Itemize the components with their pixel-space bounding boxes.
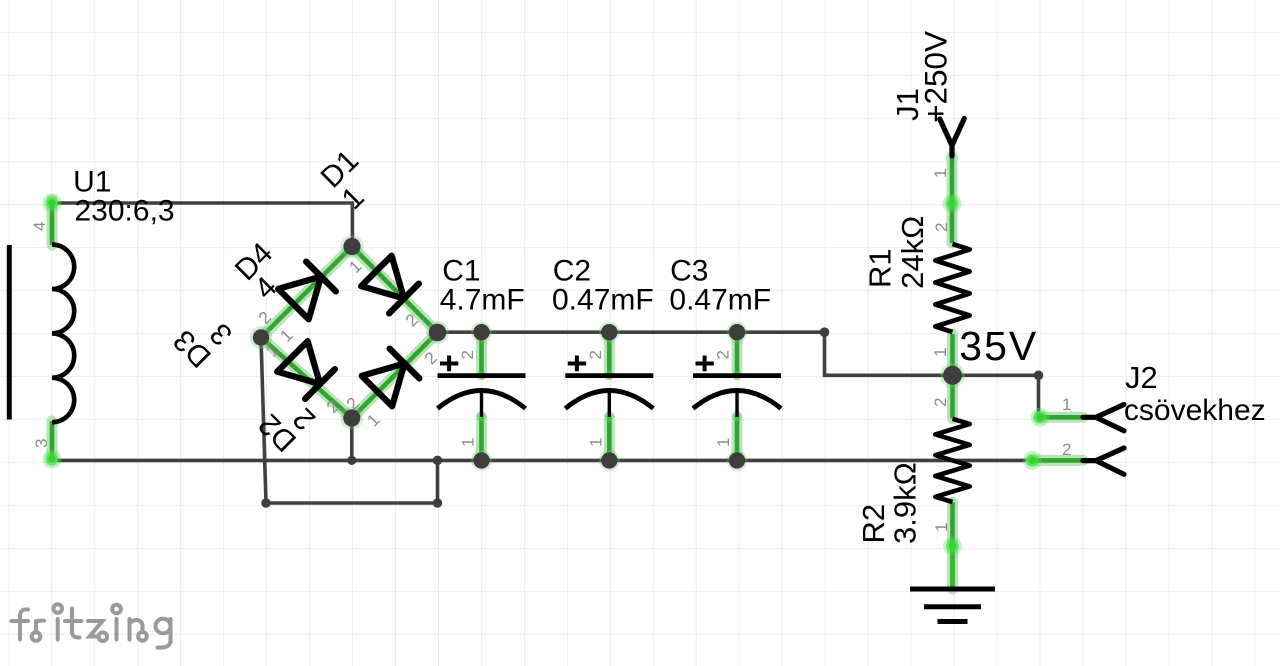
pin number 2 (at bottom node): [343, 394, 363, 414]
winding coil: [52, 245, 74, 423]
node bridge bottom (D2 D3 junction): [343, 409, 360, 426]
pin number 1 (R1): [931, 348, 950, 357]
svg-text:1: 1: [586, 438, 605, 447]
connector J2 pin1 symbol: [1083, 405, 1124, 431]
node C2 pin1 on bottom bus: [601, 452, 617, 468]
svg-text:R1: R1: [863, 248, 898, 288]
node 35V (R1 R2 junction): [943, 366, 962, 385]
pin number 2 (R1): [932, 223, 951, 232]
value label 1 (D1): [336, 181, 371, 216]
pin number 2 (D4 cathode at left node): [255, 308, 275, 328]
svg-text:3.9kΩ: 3.9kΩ: [888, 462, 923, 544]
label D2: [252, 407, 302, 457]
pin number 1 (C2): [586, 438, 605, 447]
value label 2 (D2): [287, 401, 322, 436]
label D3: [167, 323, 217, 373]
ground symbol: [910, 589, 995, 622]
resistor R2: [935, 419, 969, 502]
label J1: [890, 88, 925, 121]
svg-text:J2: J2: [1125, 360, 1158, 395]
wire bottom bus (U1 pin3 to J2 pin2): [53, 459, 1031, 463]
pin number 2 (D1 cathode at right node): [402, 310, 422, 330]
connector J2 pin2 symbol: [1083, 448, 1124, 474]
pin number 1 (J1): [931, 169, 950, 178]
svg-text:1: 1: [459, 438, 478, 447]
svg-text:csövekhez: csövekhez: [1124, 394, 1266, 427]
pin number 1 (C3): [714, 438, 733, 447]
pin number 2 (C2): [586, 350, 605, 359]
svg-text:35V: 35V: [959, 323, 1038, 369]
wire U1 pin3 leg: [50, 421, 55, 460]
pin number 1 (D3 anode at left node): [262, 341, 282, 361]
wire top bus (bridge right node to C1 C2 C3 and 35V node): [438, 332, 953, 375]
wire bridge diagonal D4 (left node to top node): [261, 247, 352, 338]
pin number 2 (D2 cathode at right node): [421, 348, 441, 368]
value label 3.9kΩ: [888, 462, 923, 544]
pin number 1 (R2): [932, 523, 951, 532]
fritzing watermark logo: [12, 604, 171, 647]
pin number 1 (D4 at left node): [276, 326, 296, 346]
wire R2 pin1 to ground: [950, 502, 955, 589]
svg-text:C2: C2: [553, 254, 591, 287]
svg-text:2: 2: [1062, 440, 1071, 459]
svg-text:0.47mF: 0.47mF: [669, 284, 771, 317]
green connection glow blobs: [43, 194, 1050, 556]
value label +250V: [917, 31, 953, 123]
label D1: [315, 144, 365, 194]
pin number 1 (D2 anode at bottom node): [363, 410, 383, 430]
svg-text:3: 3: [32, 439, 51, 448]
junction elbow corner right: [433, 498, 443, 508]
junction elbow on bottom bus: [433, 456, 443, 466]
svg-text:C1: C1: [442, 254, 480, 287]
node bridge right (D1 D2 junction): [429, 324, 447, 342]
diode D1: [361, 256, 419, 314]
svg-text:2: 2: [714, 350, 733, 359]
wire C2 pin1 leg: [607, 417, 612, 461]
wire C1 pin2 leg: [479, 332, 484, 374]
wire C3 pin1 leg: [735, 417, 740, 461]
wire bridge diagonal D1 (top node to right node): [352, 247, 438, 333]
junction J2 pin1 corner: [1034, 371, 1044, 381]
node bridge top (D1 D4 junction): [343, 238, 360, 255]
diode D4: [278, 261, 336, 319]
junction elbow corner left: [261, 498, 271, 508]
node bridge left (D3 D4 junction): [253, 329, 269, 345]
green glow underlays of nets: [52, 156, 1083, 589]
svg-text:1: 1: [714, 438, 733, 447]
svg-text:0.47mF: 0.47mF: [552, 284, 654, 317]
wire C2 pin2 leg: [607, 332, 612, 374]
svg-text:1: 1: [931, 169, 950, 178]
capacitor C1: [438, 356, 526, 418]
node C3 pin2 on top bus: [729, 324, 745, 340]
svg-text:2: 2: [931, 398, 950, 407]
svg-text:2: 2: [458, 350, 477, 359]
wire C1 pin1 leg: [479, 417, 484, 461]
label R1: [863, 248, 898, 288]
label R2: [856, 504, 891, 544]
wire bridge diagonal D2 (bottom node to right node): [352, 333, 438, 419]
svg-text:24kΩ: 24kΩ: [895, 216, 930, 289]
wire U1 pin4 leg: [50, 200, 55, 245]
wire J2 pin2 leg: [1031, 458, 1083, 463]
wire R1 pin1 leg to 35V node: [950, 334, 955, 375]
core bar: [7, 245, 12, 420]
pin number 1 (D1 anode at top node): [345, 257, 365, 277]
wire U1 pin4 to bridge top node: [53, 203, 352, 247]
wire bridge diagonal D3 (left node to bottom node): [261, 338, 352, 419]
wire bridge bottom node stub: [350, 418, 354, 460]
junction top bus corner: [820, 327, 830, 337]
svg-text:1: 1: [1062, 395, 1071, 414]
svg-text:4.7mF: 4.7mF: [440, 284, 525, 317]
resistor R1: [935, 244, 969, 332]
svg-text:1: 1: [931, 348, 950, 357]
wire 35V node to J2 pin1: [953, 375, 1039, 417]
diode D3: [277, 341, 335, 399]
pin number 2 (D3 cathode at bottom node): [323, 397, 343, 417]
svg-text:230:6,3: 230:6,3: [75, 194, 175, 227]
svg-text:2: 2: [932, 223, 951, 232]
wire bridge left node elbow to bottom bus: [261, 338, 438, 503]
svg-text:2: 2: [586, 350, 605, 359]
pin number 1 (C1): [459, 438, 478, 447]
svg-text:C3: C3: [670, 254, 708, 287]
svg-text:+250V: +250V: [917, 31, 953, 123]
node C1 pin1 on bottom bus: [473, 452, 489, 468]
diode D2: [362, 348, 420, 406]
transformer U1: [9, 245, 74, 423]
wire J1 pin1 to R1 pin2: [950, 156, 955, 243]
value label 4 (D4): [248, 271, 283, 306]
pin number 4 (U1): [30, 222, 49, 231]
svg-text:4: 4: [30, 222, 49, 231]
pin number 3 (U1): [32, 439, 51, 448]
label D4: [229, 237, 279, 287]
svg-text:R2: R2: [856, 504, 891, 544]
wire R2 ground segment bright: [950, 546, 955, 588]
value label 3 (D3): [204, 316, 239, 351]
wire C3 pin2 leg: [735, 332, 740, 374]
node C2 pin2 on top bus: [601, 324, 617, 340]
svg-text:1: 1: [932, 523, 951, 532]
node C1 pin2 on top bus: [473, 324, 489, 340]
wire R2 pin2 leg from 35V node: [950, 375, 955, 418]
pin number 2 (R2): [931, 398, 950, 407]
junction bridge stub on bottom bus: [347, 456, 356, 465]
node C3 pin1 on bottom bus: [729, 452, 745, 468]
value label 24kΩ: [895, 216, 930, 289]
pin number 2 (C1): [458, 350, 477, 359]
capacitor C3: [693, 356, 781, 418]
wire J2 pin1 leg: [1039, 415, 1084, 420]
pin number 2 (C3): [714, 350, 733, 359]
connector J1 pin1 symbol: [940, 119, 965, 157]
capacitor C2: [565, 356, 653, 418]
